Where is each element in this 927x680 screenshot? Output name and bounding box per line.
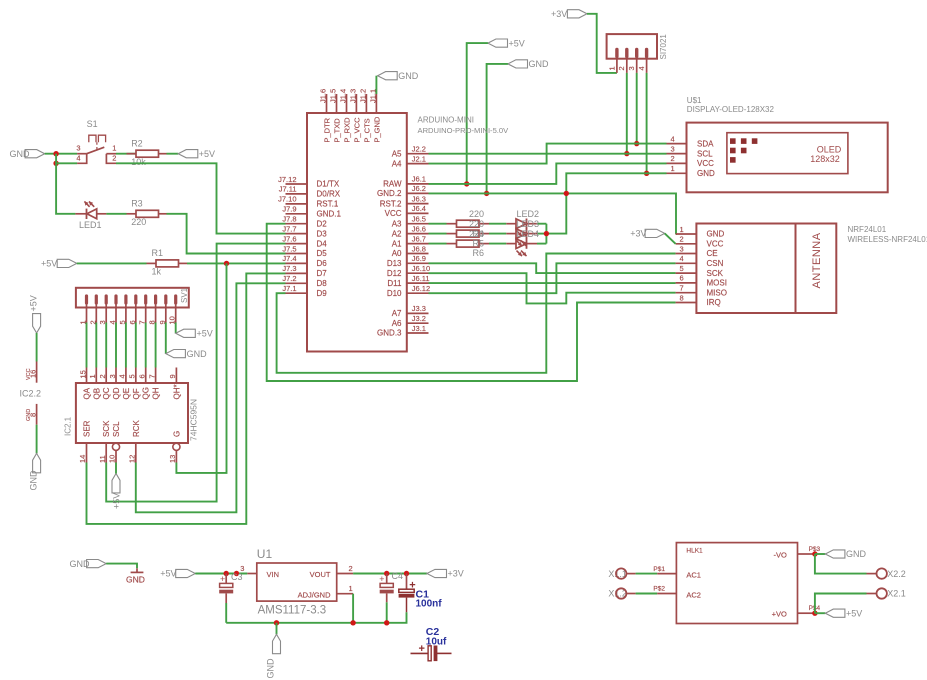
svg-text:A4: A4 [392,159,402,168]
svg-text:QF: QF [132,388,141,399]
svg-text:C4: C4 [392,571,404,581]
svg-text:A5: A5 [392,149,402,158]
svg-text:6: 6 [680,274,684,283]
svg-text:ANTENNA: ANTENNA [811,232,823,288]
svg-text:128x32: 128x32 [810,154,840,164]
svg-text:SV1: SV1 [180,287,189,303]
IC2.1 bottom pins [78,443,180,463]
junction SI7021 nets [624,141,649,176]
svg-text:QH*: QH* [172,384,181,399]
arduino right pins [407,154,429,333]
svg-text:8: 8 [28,413,37,417]
svg-text:RST.2: RST.2 [380,199,402,208]
svg-text:J1.5: J1.5 [329,89,338,103]
svg-text:J7.7: J7.7 [282,224,296,233]
svg-text:J7.1: J7.1 [282,284,296,293]
supply flag +3V (U1) [427,569,464,579]
arduino left pin labels [278,175,296,293]
svg-text:U1: U1 [257,547,273,561]
arduino top pins J1.1-J1.6 [319,89,378,113]
wire -VO to X2.2 [815,554,877,574]
svg-text:1k: 1k [152,267,162,277]
labels R4 R5 R6 values [469,209,484,258]
svg-text:SI7021: SI7021 [659,34,668,60]
wire GND to S1 [45,153,77,155]
wire D11 to NRF MOSI [429,282,676,284]
svg-text:A6: A6 [392,319,402,328]
svg-text:3: 3 [671,144,675,153]
svg-text:4: 4 [118,374,127,378]
wire pin4 row [56,162,77,164]
svg-text:6: 6 [138,374,147,378]
svg-text:2: 2 [671,154,675,163]
svg-text:GND.1: GND.1 [317,210,342,219]
svg-text:J3.3: J3.3 [412,304,426,313]
svg-text:R1: R1 [152,248,164,258]
svg-text:GND: GND [707,230,725,239]
svg-text:J1.6: J1.6 [319,89,328,103]
IC2.2 power part [20,295,42,490]
wire GND top to GND.2 net [487,64,508,194]
svg-text:J7.10: J7.10 [278,195,296,204]
svg-text:G: G [172,431,181,437]
svg-text:J6.6: J6.6 [412,224,426,233]
connector SI7021 [607,34,668,60]
junction VIN/C3 [224,571,240,576]
supply flag GND (SV1) [166,349,207,359]
svg-text:4: 4 [637,66,646,70]
wire +VO to X2.1 [815,594,877,614]
svg-text:J6.3: J6.3 [412,194,426,203]
connector SV1 [76,287,189,322]
wire D7 to IC SER [87,273,286,524]
wire +5V to VIN [195,573,247,575]
svg-text:2: 2 [680,235,684,244]
supply flag +5V (R2) [178,149,215,159]
wire junction drop [55,154,57,164]
wires A3 A2 A1 to resistors [429,224,447,244]
svg-text:1: 1 [112,144,116,153]
ground symbol GND [126,568,145,584]
svg-text:NRF24L01: NRF24L01 [848,225,887,234]
HLK AC1 pin [626,566,676,574]
wire D6 to IC G [176,263,226,473]
svg-text:1: 1 [607,66,616,70]
NRF pins [676,225,727,307]
svg-text:+5V: +5V [199,149,215,159]
svg-text:+5V: +5V [197,329,213,339]
terminal X1.2 [608,588,627,598]
resistor R1 [147,248,188,277]
svg-text:13: 13 [168,455,177,463]
svg-text:5: 5 [128,374,137,378]
svg-text:10k: 10k [131,157,146,167]
wire D9 to NRF CE [277,254,676,373]
svg-text:VCC: VCC [697,159,714,168]
svg-text:J6.2: J6.2 [412,184,426,193]
U1 pin stubs [240,564,353,594]
svg-text:3: 3 [680,244,684,253]
svg-text:D13: D13 [387,259,402,268]
IC NRF24L01 box [696,224,836,314]
svg-text:VOUT: VOUT [310,570,331,579]
SV1 pin numbers [79,316,177,324]
svg-text:3: 3 [76,144,80,153]
svg-text:D7: D7 [317,269,328,278]
svg-text:220: 220 [469,219,484,229]
resistors R4 R5 R6 [447,220,490,247]
svg-text:ARDUINO-PRO-MINI-5.0V: ARDUINO-PRO-MINI-5.0V [418,126,510,135]
svg-text:+VO: +VO [772,609,787,618]
wire R1 to D6 (J7.4) [187,262,286,264]
svg-text:RST.1: RST.1 [317,200,339,209]
svg-text:8: 8 [680,293,684,302]
IC U$1 DISPLAY-OLED-128X32 box [687,123,888,193]
wire A5/SCL net [429,153,667,155]
svg-text:SCL: SCL [697,149,713,158]
svg-text:R3: R3 [131,198,143,208]
capacitor C1 [399,574,443,613]
svg-text:GND: GND [846,549,867,559]
svg-text:+5V: +5V [509,38,525,48]
svg-text:IC2.1: IC2.1 [64,416,73,436]
svg-text:AMS1117-3.3: AMS1117-3.3 [258,605,327,617]
svg-text:QE: QE [122,388,131,400]
svg-text:4: 4 [671,134,675,143]
junction VOUT/C4/C1 [384,571,409,576]
svg-text:A2: A2 [392,229,402,238]
svg-text:J6.11: J6.11 [412,274,430,283]
svg-text:J7.3: J7.3 [282,264,296,273]
svg-text:P$1: P$1 [653,566,665,573]
svg-text:VCC: VCC [707,240,724,249]
svg-text:2: 2 [112,154,116,163]
LED LED2 [516,219,527,237]
svg-text:2: 2 [349,564,353,573]
OLED pixel squares [730,138,757,162]
svg-text:QA: QA [83,387,92,399]
NRF labels [848,225,927,244]
svg-text:A1: A1 [392,239,402,248]
wire C4 to rail [386,602,388,623]
svg-text:J6.10: J6.10 [412,264,430,273]
svg-text:P_RXD: P_RXD [343,117,352,143]
supply flag +3V top [551,9,587,19]
svg-text:RAW: RAW [383,180,402,189]
svg-text:5: 5 [680,264,684,273]
wire D10 to NRF CSN [429,263,676,293]
arduino right pin names [377,149,402,337]
wire C3 to rail [225,603,227,623]
HLK +VO pin [798,605,821,613]
svg-text:S1: S1 [87,119,98,129]
svg-text:SDA: SDA [697,139,714,148]
junction GND.2/OLED [564,191,569,196]
wire SV1 pin10 to +5V [175,323,177,334]
svg-text:LED4: LED4 [517,229,540,239]
svg-text:P_VCC: P_VCC [352,117,361,143]
svg-text:IRQ: IRQ [707,298,721,307]
IC U1 AMS1117-3.3 box [257,547,337,617]
svg-text:WIRELESS-NRF24L01: WIRELESS-NRF24L01 [848,235,927,244]
svg-text:3: 3 [627,66,636,70]
wire GND to LED1 [56,163,75,214]
arduino top pin names [323,116,382,142]
svg-text:GND: GND [265,658,275,679]
svg-text:7: 7 [147,374,156,378]
IC IC2.1 74HC595N box [64,383,199,443]
resistor R3 [127,198,167,227]
LED LED3 [516,228,527,246]
svg-text:12: 12 [128,455,137,463]
svg-text:J7.9: J7.9 [282,205,296,214]
OLED pins [667,134,716,178]
svg-text:J7.8: J7.8 [282,215,296,224]
OLED labels [687,96,775,114]
svg-text:P_TXD: P_TXD [333,118,342,143]
svg-text:D6: D6 [317,259,328,268]
wire +3V to NRF VCC [665,233,676,243]
LED LED4 [516,238,527,256]
svg-text:J7.2: J7.2 [282,274,296,283]
svg-text:D10: D10 [387,289,402,298]
svg-text:J7.4: J7.4 [282,254,296,263]
svg-text:IC2.2: IC2.2 [20,389,42,399]
svg-text:QB: QB [92,388,101,400]
svg-text:GND: GND [398,71,419,81]
svg-text:A0: A0 [392,249,402,258]
wire A4/SDA net [429,144,667,164]
wire D12 to NRF MISO [429,273,676,303]
capacitor C2 [411,626,452,661]
wire ADJ to rail [352,594,354,623]
svg-text:J7.5: J7.5 [282,244,296,253]
svg-text:220: 220 [469,209,484,219]
supply flag +5V top [488,38,525,48]
supply flag +3V (NRF) [630,229,664,239]
wire LED common to GND.2 [546,193,566,243]
wire SV1 pin9 to GND [165,323,167,354]
svg-text:GND: GND [529,59,550,69]
svg-text:1: 1 [680,225,684,234]
labels LED2 LED3 LED4 [517,209,540,239]
svg-text:P_CTS: P_CTS [362,118,371,142]
svg-text:+5V: +5V [28,295,38,311]
arduino left pins J7.x [286,184,308,293]
svg-text:HLK1: HLK1 [686,548,703,555]
junction R1/D6/G [224,261,229,266]
svg-text:J7.6: J7.6 [282,234,296,243]
arduino left pin names [317,180,342,298]
svg-text:D12: D12 [387,269,402,278]
svg-text:C3: C3 [231,572,243,582]
svg-text:1: 1 [349,584,353,593]
supply flag +5V (R1) [41,259,77,269]
wire GND.2 net [429,193,677,234]
supply flag GND (J1.1) [378,71,419,81]
wire RAW to OLED VCC [429,163,667,184]
svg-text:D2: D2 [317,219,328,228]
svg-text:-VO: -VO [773,551,787,560]
wire SI7021 pin3 to SDA net [636,73,638,144]
svg-text:QD: QD [112,387,121,399]
svg-text:GND: GND [28,470,38,491]
svg-text:MOSI: MOSI [707,279,727,288]
junction LED common [544,231,549,236]
svg-text:U$1: U$1 [687,96,702,105]
supply flag GND (rail) [265,634,280,678]
svg-text:GND: GND [10,149,31,159]
svg-text:74HC595N: 74HC595N [189,399,199,441]
wires resistors to LEDs [489,224,516,244]
svg-text:R2: R2 [131,138,143,148]
wires SV1 pins1-8 to IC QA-QH [87,323,156,368]
wire D2 to NRF IRQ [267,224,676,381]
svg-text:7: 7 [680,284,684,293]
svg-text:D8: D8 [317,279,328,288]
svg-text:D4: D4 [317,239,328,248]
svg-text:J1.4: J1.4 [339,89,348,103]
IC2.1 bottom pin names [83,419,182,437]
svg-text:QC: QC [102,387,111,399]
svg-text:SER: SER [83,420,92,437]
svg-text:GND.3: GND.3 [377,329,402,338]
svg-text:D9: D9 [317,289,328,298]
svg-text:P_DTR: P_DTR [323,117,332,142]
svg-text:J1.2: J1.2 [358,89,367,103]
svg-text:D11: D11 [387,279,402,288]
wire R2 to +5V [167,153,179,155]
svg-text:+5V: +5V [160,569,176,579]
svg-text:DISPLAY-OLED-128X32: DISPLAY-OLED-128X32 [687,105,775,114]
terminal X1.1 [608,568,627,578]
label ARDUINO-MINI [418,116,510,136]
svg-text:X2.1: X2.1 [887,589,906,599]
SI7021 pin stubs and numbers [607,59,646,73]
svg-text:RCK: RCK [132,419,141,437]
svg-text:D5: D5 [317,249,328,258]
svg-text:11: 11 [98,455,107,463]
svg-text:A3: A3 [392,219,402,228]
IC HLK1 box [676,543,797,624]
wire J1.1 to GND flag [375,76,377,94]
HLK AC2 pin [626,586,676,594]
wire S1 pin2 to D3 (J7.7) [116,163,286,233]
svg-text:QG: QG [142,387,151,399]
terminal X2.2 [877,568,906,578]
resistor R2 [127,138,167,167]
svg-text:J3.1: J3.1 [412,324,426,333]
svg-text:J6.1: J6.1 [412,175,426,184]
capacitor C3 [219,572,242,603]
svg-text:15: 15 [78,370,87,378]
IC ARDUINO-PRO-MINI box [307,113,407,352]
svg-text:R6: R6 [473,248,485,258]
svg-text:D1/TX: D1/TX [317,180,340,189]
wire +5V to RAW [467,43,488,184]
svg-text:R5: R5 [473,238,485,248]
svg-text:P_GND: P_GND [372,116,381,142]
wire S1 pin1 to R2 [116,153,136,155]
svg-text:100nf: 100nf [416,599,443,610]
wire D13 to NRF SCK [429,263,676,273]
supply flag GND (HLK) [825,549,866,559]
supply flag GND left [10,149,45,159]
svg-text:J7.12: J7.12 [278,175,296,184]
wire D4 to IC SCK [106,244,285,502]
junction GND top [484,191,489,196]
supply flag +5V (SCL) [112,474,122,510]
svg-text:GND.2: GND.2 [377,189,402,198]
wire +5V to R1 [77,262,147,264]
svg-text:2: 2 [98,374,107,378]
svg-text:+: + [379,574,384,584]
wire C1 to rail [226,612,406,623]
svg-text:J6.12: J6.12 [412,284,430,293]
wire D8 to IC RCK [136,283,286,512]
capacitor C4 [379,571,403,602]
supply flag +5V (HLK) [825,608,862,618]
svg-text:P$2: P$2 [653,586,665,593]
svg-text:VCC: VCC [385,209,402,218]
svg-text:+: + [220,574,225,584]
wire SI7021 pin2 to SCL net [626,73,628,154]
svg-text:OLED: OLED [817,144,842,154]
svg-text:14: 14 [78,455,87,463]
svg-text:J3.2: J3.2 [412,314,426,323]
junction GND/S1 [53,151,58,166]
svg-text:MISO: MISO [707,288,727,297]
junction -VO [812,551,825,556]
svg-text:J6.7: J6.7 [412,234,426,243]
supply flag GND (left of U1) [70,559,107,569]
svg-text:SCK: SCK [102,420,111,437]
IC2.1 top pins [78,368,177,384]
svg-text:10: 10 [108,455,117,463]
svg-text:QH: QH [152,387,161,399]
svg-text:+3V: +3V [630,229,646,239]
svg-text:GND: GND [187,349,208,359]
svg-text:4: 4 [76,154,80,163]
junction +VO [812,611,825,616]
wire OLED GND drop [566,173,666,193]
svg-text:9: 9 [168,374,177,378]
svg-text:4: 4 [680,254,684,263]
terminal X2.1 [877,588,906,598]
svg-text:J2.1: J2.1 [412,154,426,163]
svg-text:+5V: +5V [846,608,862,618]
svg-text:GND: GND [126,575,145,585]
svg-text:J6.9: J6.9 [412,254,426,263]
svg-text:2: 2 [617,66,626,70]
svg-text:LED1: LED1 [79,220,102,230]
wire LED1 to R3 [106,213,126,215]
wire R3 to D5 (J7.5) [167,214,286,254]
junction rail [274,620,390,625]
svg-text:X2.2: X2.2 [887,569,906,579]
svg-text:3: 3 [108,374,117,378]
svg-text:+3V: +3V [448,569,464,579]
svg-text:R4: R4 [473,229,485,239]
svg-text:A7: A7 [392,309,402,318]
svg-text:1: 1 [671,164,675,173]
svg-text:J6.8: J6.8 [412,244,426,253]
svg-text:LED2: LED2 [517,209,540,219]
switch S1 [76,119,116,163]
supply flag GND top [508,59,549,69]
svg-text:GND: GND [697,169,715,178]
svg-text:ARDUINO-MINI: ARDUINO-MINI [418,116,474,125]
